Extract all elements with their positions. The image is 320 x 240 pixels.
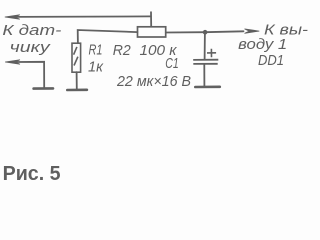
svg-text:R1: R1	[89, 42, 103, 58]
svg-text:R2: R2	[113, 42, 132, 59]
arrow: to sensor (lower)	[5, 60, 20, 64]
wire: R1 top lead up and over to R2 left terminal	[78, 30, 138, 43]
wire: C1 bottom lead	[203, 64, 205, 86]
svg-text:чику: чику	[10, 39, 52, 56]
wire: R2 right terminal to output arrow	[166, 31, 244, 32]
svg-text:воду 1: воду 1	[238, 36, 287, 53]
svg-text:22 мк×16 В: 22 мк×16 В	[116, 74, 191, 90]
wire: R1 bottom lead	[76, 72, 78, 90]
svg-text:DD1: DD1	[258, 52, 284, 69]
ground: common bar under R1	[67, 89, 87, 92]
svg-text:К дат-: К дат-	[2, 22, 61, 39]
arrow: to pin 1 of DD1 (output)	[245, 29, 260, 33]
svg-text:Рис. 5: Рис. 5	[3, 163, 61, 184]
wire: lower sensor line with corner down to common	[16, 62, 44, 89]
capacitor C1 (polarized plates + plus sign)	[193, 49, 218, 64]
resistor R2 100к (horizontal, tapped)	[138, 27, 166, 37]
wire: C1 top lead from junction	[204, 32, 206, 59]
node: junction of R2 / C1 / output	[203, 30, 208, 35]
resistor R1 1к (vertical)	[72, 43, 81, 72]
wire: R2 tap vertical (with hand overshoot)	[150, 12, 152, 26]
arrow: to sensor (upper)	[5, 15, 20, 19]
svg-text:1к: 1к	[88, 60, 104, 76]
ground: common bar under C1	[195, 86, 220, 89]
ground: common bar (left)	[34, 87, 53, 90]
wire: top rail from sensor arrow to R2 tap	[16, 15, 151, 18]
svg-text:С1: С1	[165, 56, 179, 72]
